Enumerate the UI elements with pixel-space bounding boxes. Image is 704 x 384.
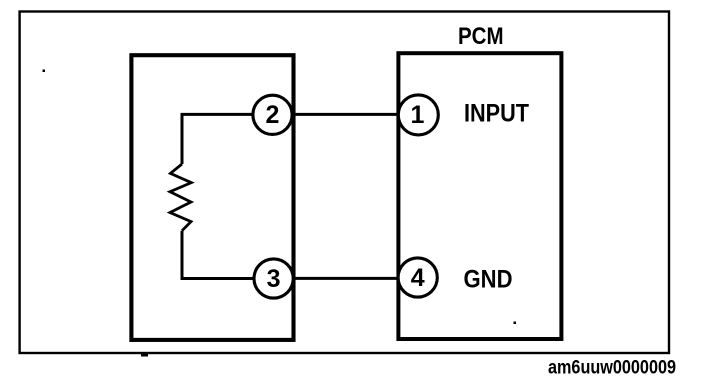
svg-text:GND: GND — [464, 267, 513, 294]
wire resistor bottom to pin3 — [182, 231, 256, 279]
svg-text:PCM: PCM — [458, 24, 504, 50]
svg-text:3: 3 — [267, 265, 281, 293]
svg-text:2: 2 — [266, 101, 280, 129]
sensor component box — [131, 55, 293, 340]
wire pin2 to resistor top — [182, 114, 255, 164]
pin 3 — [254, 259, 293, 298]
svg-text:1: 1 — [411, 101, 425, 129]
wire pin2 to pin1 — [290, 113, 400, 116]
svg-text:INPUT: INPUT — [464, 100, 529, 127]
resistor — [170, 164, 191, 231]
svg-text:4: 4 — [411, 264, 425, 292]
PCM box — [398, 53, 561, 339]
pin 1 — [398, 95, 438, 135]
pin 2 — [253, 95, 292, 134]
wire pin3 to pin4 — [290, 277, 400, 280]
svg-text:am6uuw0000009: am6uuw0000009 — [548, 356, 676, 378]
pin 4 — [398, 258, 437, 297]
